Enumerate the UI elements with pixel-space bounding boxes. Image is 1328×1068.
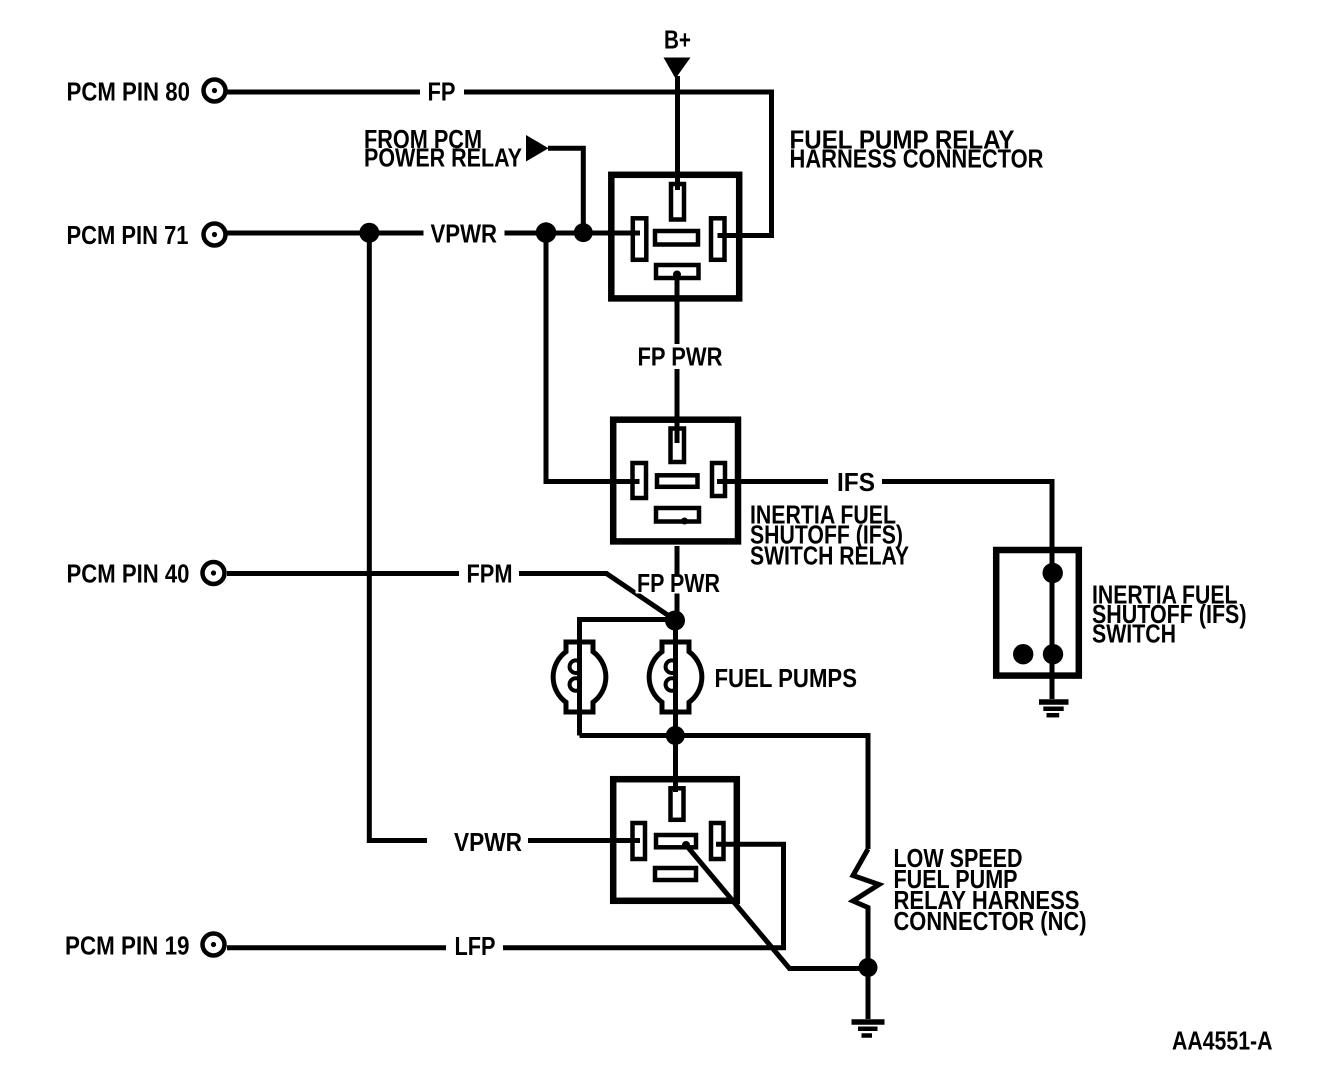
label INERTIA FUEL SHUTOFF (IFS) SWITCH [1092, 580, 1247, 649]
pin FP (right) [711, 218, 725, 259]
svg-text:HARNESS CONNECTOR: HARNESS CONNECTOR [790, 144, 1044, 174]
label FPM [459, 559, 519, 589]
svg-text:SWITCH: SWITCH [1092, 619, 1176, 649]
relay output slot (lower) [656, 265, 699, 278]
ground below inertia switch [1039, 702, 1069, 715]
svg-text:FP PWR: FP PWR [638, 342, 723, 372]
pin left [633, 463, 647, 498]
svg-text:CONNECTOR (NC): CONNECTOR (NC) [894, 906, 1087, 936]
terminal PCM PIN 80 [204, 80, 226, 102]
wire VPWR branch to low speed relay left pin [369, 232, 640, 841]
fuel pump relay harness connector box [611, 175, 739, 299]
label FP PWR upper [630, 342, 727, 372]
relay contact slot (middle) [656, 835, 696, 847]
node FP PWR junction dot [665, 611, 685, 631]
node VPWR junction dot at PCM power relay feed [574, 223, 593, 242]
svg-text:FP PWR: FP PWR [637, 568, 720, 598]
terminal PCM PIN 19 [203, 934, 225, 956]
junction dot on IFS relay output [681, 518, 688, 525]
svg-text:PCM PIN 40: PCM PIN 40 [67, 559, 190, 589]
pin B+ (top) [671, 184, 684, 220]
pin VPWR (left) [633, 823, 646, 859]
wire FP from PCM PIN 80 to fuel pump relay right pin [227, 92, 772, 236]
svg-text:IFS: IFS [837, 467, 875, 497]
label FP PWR lower [636, 568, 726, 598]
svg-text:VPWR: VPWR [431, 219, 498, 249]
wire VPWR branch to IFS switch relay left pin [546, 233, 640, 482]
label VPWR upper [424, 219, 505, 249]
svg-text:PCM PIN 19: PCM PIN 19 [65, 931, 190, 961]
terminal PCM PIN 71 [204, 224, 226, 246]
left fuel pump [553, 642, 606, 712]
svg-text:FPM: FPM [467, 559, 513, 589]
node fuel pumps bottom junction dot [666, 726, 685, 745]
svg-text:FUEL PUMPS: FUEL PUMPS [715, 663, 858, 693]
relay output slot (lower) [656, 508, 699, 522]
wire inside inertia switch between contacts [1050, 573, 1055, 654]
svg-text:SWITCH RELAY: SWITCH RELAY [750, 541, 909, 571]
contact dot upper (IFS switch) [1043, 563, 1063, 583]
contact dot lower right (IFS switch) [1043, 644, 1063, 664]
pin IFS (right) [712, 463, 725, 496]
svg-text:B+: B+ [664, 25, 691, 55]
svg-text:FP: FP [428, 77, 456, 107]
wire fuel pumps node to low speed relay top pin [673, 736, 678, 793]
terminal PCM PIN 40 [203, 562, 225, 584]
label LOW SPEED FUEL PUMP RELAY HARNESS CONNECTOR (NC) [894, 843, 1087, 936]
relay contact slot (middle) [655, 231, 698, 245]
PCM power relay arrow [526, 135, 549, 162]
svg-text:LFP: LFP [455, 931, 496, 961]
label FUEL PUMP RELAY HARNESS CONNECTOR [790, 125, 1044, 174]
wire resistor node to ground [866, 960, 871, 1019]
wire FP PWR from fuel pump relay to IFS switch relay [675, 273, 680, 443]
relay contact slot (middle) [657, 475, 698, 487]
wire diagonal from low speed relay contact to resistor node [686, 845, 860, 969]
node resistor ground junction dot [859, 958, 878, 977]
relay output slot (lower) [655, 868, 696, 880]
pin top [671, 429, 685, 463]
wire branch to left fuel pump [580, 620, 676, 736]
ground below low speed relay resistor [852, 1022, 885, 1036]
low speed fuel pump relay harness connector box [613, 779, 737, 901]
label FP [420, 77, 464, 107]
label IFS [828, 467, 882, 497]
label VPWR lower [427, 827, 528, 857]
wire FP PWR from IFS switch relay to fuel pumps node [675, 546, 680, 617]
resistor low speed fuel pump relay harness connector (NC) [853, 849, 879, 960]
inertia fuel shutoff switch box [996, 550, 1079, 676]
right fuel pump [649, 642, 702, 712]
svg-text:PCM PIN 80: PCM PIN 80 [67, 77, 191, 107]
wire VPWR from PCM PIN 71 to fuel pump relay left pin [227, 231, 640, 236]
node VPWR junction dot at IFS relay branch [536, 222, 557, 243]
inertia fuel shutoff switch relay box [613, 420, 738, 542]
wire B+ drop into fuel pump relay top pin [675, 76, 680, 190]
node VPWR junction dot at PIN 71 branch [359, 223, 379, 243]
junction dot on low speed relay contact [682, 841, 690, 849]
wire through right fuel pump [673, 620, 678, 736]
pin top [671, 788, 684, 820]
B+ supply arrow [664, 58, 691, 79]
svg-text:PCM PIN 71: PCM PIN 71 [67, 220, 189, 250]
pin VPWR (left) [633, 218, 647, 259]
label INERTIA FUEL SHUTOFF (IFS) SWITCH RELAY [750, 500, 909, 571]
label LFP [446, 931, 503, 961]
wire fuel pumps bottom bus to resistor [580, 736, 869, 850]
wire inertia switch to ground [1050, 654, 1055, 699]
contact dot lower left (IFS switch) [1013, 644, 1033, 664]
wire from PCM power relay arrow to VPWR node [548, 148, 583, 231]
junction dot on fuel pump relay output [673, 271, 681, 279]
svg-text:VPWR: VPWR [454, 827, 522, 857]
wire FPM from PCM PIN 40 to fuel pumps node [227, 574, 675, 621]
wire LFP from PCM PIN 19 to low speed relay right pin [227, 844, 784, 948]
pin LFP (right) [711, 823, 724, 859]
wire IFS from relay to inertia switch [717, 482, 1052, 574]
label FROM PCM POWER RELAY [364, 124, 522, 173]
svg-text:AA4551-A: AA4551-A [1172, 1026, 1273, 1056]
svg-text:POWER RELAY: POWER RELAY [364, 143, 522, 173]
